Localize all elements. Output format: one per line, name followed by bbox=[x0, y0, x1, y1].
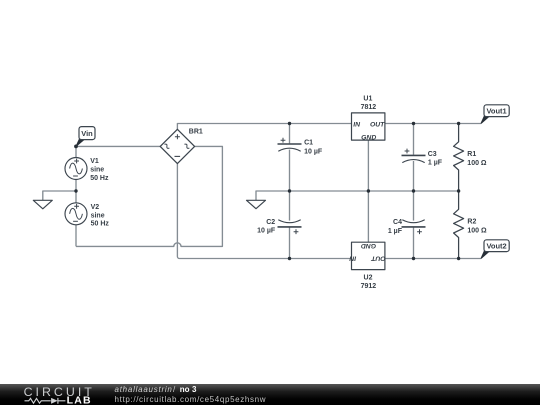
svg-text:sine: sine bbox=[90, 167, 104, 174]
svg-text:50 Hz: 50 Hz bbox=[90, 175, 109, 182]
svg-text:10 µF: 10 µF bbox=[257, 228, 276, 235]
svg-text:http://circuitlab.com/ce54qp5e: http://circuitlab.com/ce54qp5ezhsnw bbox=[115, 395, 267, 404]
svg-text:LAB: LAB bbox=[67, 395, 92, 405]
svg-text:Vout2: Vout2 bbox=[486, 242, 506, 251]
svg-text:Vin: Vin bbox=[81, 129, 93, 138]
svg-text:U2: U2 bbox=[364, 275, 373, 282]
svg-text:C2: C2 bbox=[266, 219, 275, 226]
svg-text:Vout1: Vout1 bbox=[486, 107, 506, 116]
svg-text:7812: 7812 bbox=[361, 104, 377, 111]
svg-text:IN: IN bbox=[348, 255, 356, 262]
svg-text:1 µF: 1 µF bbox=[388, 228, 403, 235]
svg-text:C4: C4 bbox=[393, 219, 402, 226]
svg-text:50 Hz: 50 Hz bbox=[91, 221, 110, 228]
svg-text:IN: IN bbox=[353, 121, 361, 128]
svg-text:GND: GND bbox=[361, 134, 376, 141]
svg-text:R2: R2 bbox=[467, 219, 476, 226]
svg-text:V1: V1 bbox=[90, 158, 99, 165]
svg-text:1 µF: 1 µF bbox=[428, 160, 443, 167]
svg-text:C1: C1 bbox=[304, 140, 313, 147]
svg-text:V2: V2 bbox=[91, 204, 100, 211]
svg-text:10 µF: 10 µF bbox=[304, 148, 323, 155]
svg-text:100 Ω: 100 Ω bbox=[467, 228, 487, 235]
svg-text:athallaaustrin: athallaaustrin bbox=[115, 385, 173, 394]
svg-text:OUT: OUT bbox=[370, 255, 385, 262]
svg-text:U1: U1 bbox=[363, 96, 372, 103]
svg-text:C3: C3 bbox=[428, 151, 437, 158]
svg-text:BR1: BR1 bbox=[189, 129, 203, 136]
svg-text:no 3: no 3 bbox=[180, 385, 197, 394]
svg-text:GND: GND bbox=[361, 242, 376, 249]
svg-text:R1: R1 bbox=[467, 151, 476, 158]
svg-text:100 Ω: 100 Ω bbox=[467, 160, 487, 167]
svg-text:OUT: OUT bbox=[370, 121, 385, 128]
svg-text:7912: 7912 bbox=[361, 283, 377, 290]
svg-text:sine: sine bbox=[91, 212, 105, 219]
